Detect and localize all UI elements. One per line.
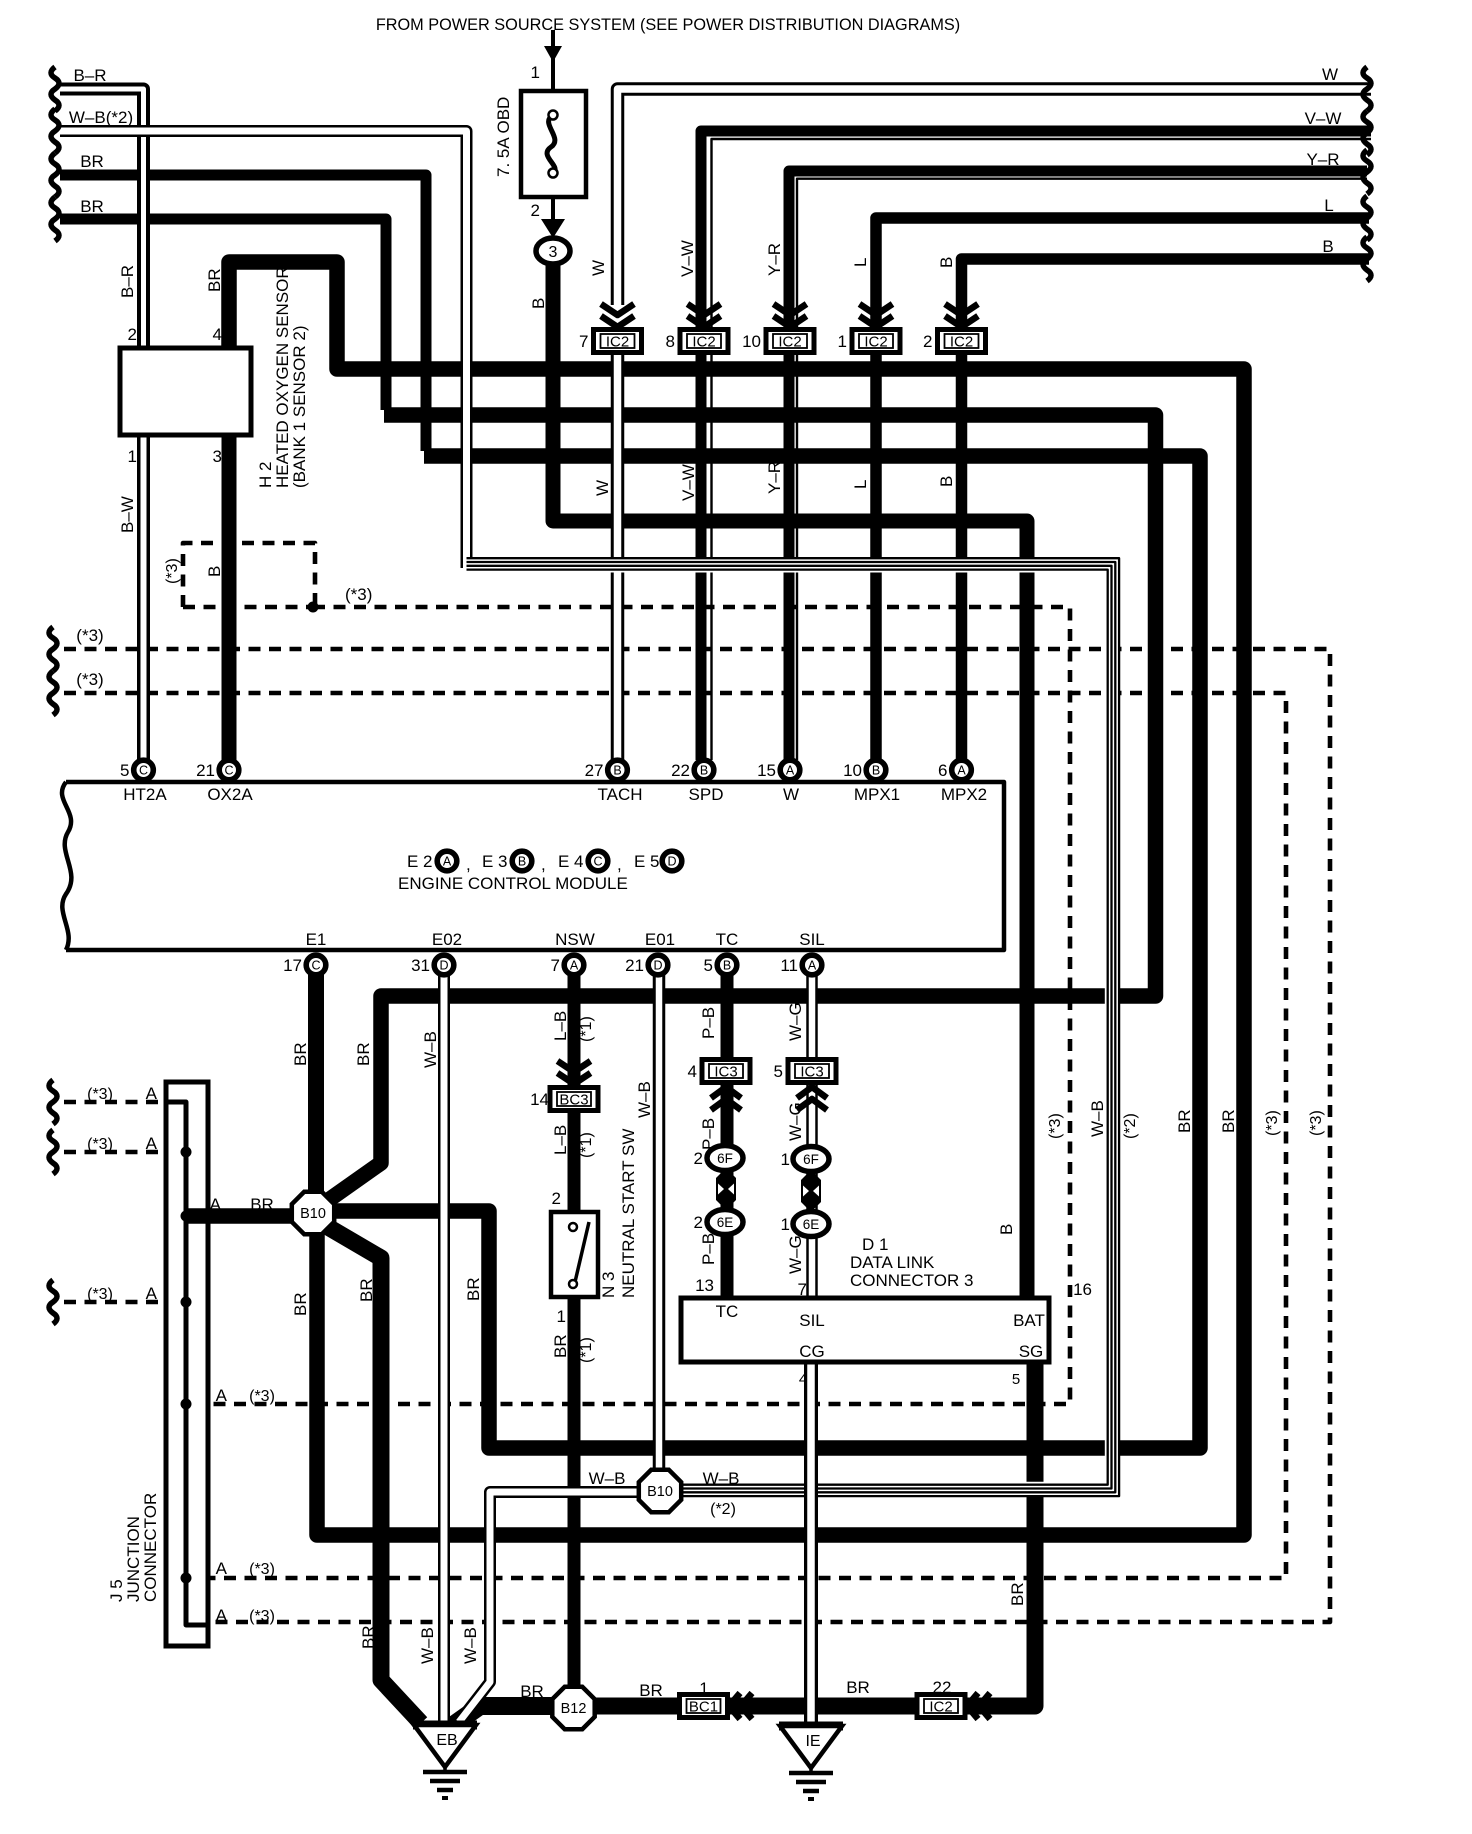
svg-text:W–B: W–B	[635, 1081, 654, 1118]
svg-text:B: B	[613, 764, 621, 778]
svg-text:4: 4	[688, 1062, 697, 1081]
svg-text:SIL: SIL	[799, 1311, 825, 1330]
svg-text:IC2: IC2	[929, 1699, 952, 1716]
svg-text:C: C	[139, 764, 148, 778]
svg-text:N 3: N 3	[599, 1272, 618, 1298]
svg-text:OX2A: OX2A	[207, 785, 253, 804]
svg-text:3: 3	[213, 447, 222, 466]
svg-text:E02: E02	[432, 930, 462, 949]
svg-text:C: C	[224, 764, 233, 778]
svg-text:W: W	[1322, 65, 1338, 84]
svg-text:A: A	[146, 1284, 158, 1303]
svg-text:A: A	[146, 1134, 158, 1153]
svg-text:W–B: W–B	[1088, 1100, 1107, 1137]
svg-text:A: A	[957, 764, 966, 778]
svg-text:W–B: W–B	[703, 1469, 740, 1488]
svg-text:17: 17	[283, 956, 302, 975]
svg-text:1: 1	[781, 1215, 790, 1234]
svg-text:14: 14	[530, 1090, 549, 1109]
svg-text:HT2A: HT2A	[123, 785, 167, 804]
svg-text:B: B	[700, 764, 708, 778]
svg-text:(*1): (*1)	[578, 1132, 595, 1158]
svg-text:B–W: B–W	[118, 496, 137, 533]
svg-text:L–B: L–B	[551, 1125, 570, 1155]
svg-text:11: 11	[780, 956, 798, 975]
svg-text:E 4: E 4	[558, 852, 584, 871]
svg-text:BR: BR	[291, 1292, 310, 1316]
svg-text:A: A	[786, 764, 795, 778]
svg-text:BR: BR	[639, 1681, 663, 1700]
svg-text:BR: BR	[846, 1678, 870, 1697]
svg-text:CONNECTOR: CONNECTOR	[141, 1493, 160, 1602]
svg-text:IC2: IC2	[606, 334, 629, 351]
svg-text:6: 6	[938, 761, 947, 780]
svg-text:1: 1	[531, 63, 540, 82]
svg-text:W: W	[783, 785, 799, 804]
svg-text:BR: BR	[291, 1042, 310, 1066]
svg-text:IE: IE	[805, 1733, 820, 1750]
svg-text:7: 7	[551, 956, 560, 975]
svg-text:W–B: W–B	[418, 1627, 437, 1664]
svg-text:CG: CG	[799, 1342, 825, 1361]
svg-text:BR: BR	[464, 1277, 483, 1301]
svg-text:ENGINE CONTROL MODULE: ENGINE CONTROL MODULE	[398, 874, 628, 893]
svg-text:16: 16	[1073, 1280, 1092, 1299]
svg-text:BR: BR	[80, 197, 104, 216]
svg-text:4: 4	[799, 1371, 807, 1388]
svg-text:2: 2	[694, 1213, 703, 1232]
svg-text:EB: EB	[436, 1732, 457, 1749]
svg-text:BR: BR	[520, 1682, 544, 1701]
svg-text:(*3): (*3)	[249, 1608, 275, 1625]
svg-text:(*3): (*3)	[1308, 1110, 1325, 1136]
svg-text:15: 15	[757, 761, 776, 780]
svg-text:22: 22	[671, 761, 690, 780]
svg-text:B: B	[529, 298, 548, 309]
svg-text:B: B	[997, 1224, 1016, 1235]
svg-text:B: B	[1322, 237, 1333, 256]
svg-text:B: B	[937, 257, 956, 268]
svg-text:Y–R: Y–R	[1306, 150, 1339, 169]
svg-text:(*3): (*3)	[87, 1286, 113, 1303]
svg-text:6F: 6F	[803, 1152, 819, 1167]
svg-text:BR: BR	[551, 1334, 570, 1358]
svg-text:27: 27	[585, 761, 604, 780]
svg-text:(*1): (*1)	[578, 1016, 595, 1042]
svg-text:A: A	[216, 1386, 228, 1405]
svg-text:(*3): (*3)	[87, 1136, 113, 1153]
svg-text:A: A	[443, 855, 452, 869]
svg-text:W: W	[589, 260, 608, 276]
svg-text:FROM POWER SOURCE SYSTEM (SEE: FROM POWER SOURCE SYSTEM (SEE POWER DIST…	[376, 16, 960, 34]
svg-text:W–B: W–B	[461, 1627, 480, 1664]
svg-text:2: 2	[128, 325, 137, 344]
svg-text:A: A	[146, 1084, 158, 1103]
svg-text:E1: E1	[306, 930, 327, 949]
svg-text:7: 7	[579, 332, 588, 351]
svg-text:1: 1	[699, 1679, 708, 1698]
svg-text:B–R: B–R	[73, 66, 106, 85]
svg-text:D: D	[667, 855, 676, 869]
svg-text:NSW: NSW	[555, 930, 595, 949]
svg-text:TC: TC	[716, 930, 739, 949]
svg-text:B10: B10	[300, 1206, 326, 1222]
svg-text:B: B	[937, 476, 956, 487]
svg-text:,: ,	[466, 855, 471, 874]
svg-text:B10: B10	[647, 1484, 673, 1500]
svg-text:(*1): (*1)	[578, 1337, 595, 1363]
svg-text:2: 2	[531, 201, 540, 220]
svg-text:(*3): (*3)	[1047, 1113, 1064, 1139]
svg-text:BR: BR	[80, 152, 104, 171]
svg-text:TACH: TACH	[597, 785, 642, 804]
svg-text:1: 1	[781, 1150, 790, 1169]
svg-text:BAT: BAT	[1013, 1311, 1045, 1330]
svg-text:W–B(*2): W–B(*2)	[69, 108, 133, 127]
svg-text:V–W: V–W	[678, 240, 697, 277]
svg-text:(*3): (*3)	[345, 585, 372, 604]
svg-text:B: B	[872, 764, 880, 778]
svg-text:SIL: SIL	[799, 930, 825, 949]
svg-text:B: B	[205, 566, 224, 577]
svg-text:C: C	[593, 855, 602, 869]
svg-text:IC3: IC3	[800, 1064, 823, 1081]
svg-text:IC3: IC3	[714, 1064, 737, 1081]
svg-text:V–W: V–W	[679, 464, 698, 501]
svg-text:MPX2: MPX2	[941, 785, 987, 804]
svg-text:4: 4	[213, 325, 222, 344]
svg-text:A: A	[210, 1195, 222, 1214]
svg-text:1: 1	[128, 447, 137, 466]
svg-text:W: W	[593, 480, 612, 496]
svg-text:Y–R: Y–R	[765, 461, 784, 494]
svg-text:L–B: L–B	[551, 1011, 570, 1041]
svg-text:(*2): (*2)	[1122, 1113, 1139, 1139]
svg-text:10: 10	[843, 761, 862, 780]
svg-text:21: 21	[625, 956, 644, 975]
svg-text:5: 5	[1012, 1371, 1020, 1388]
svg-text:BR: BR	[1219, 1109, 1238, 1133]
svg-text:IC2: IC2	[778, 334, 801, 351]
svg-text:D: D	[653, 959, 662, 973]
svg-text:22: 22	[933, 1678, 952, 1697]
svg-text:E 3: E 3	[482, 852, 508, 871]
svg-text:SG: SG	[1019, 1342, 1044, 1361]
svg-text:6F: 6F	[717, 1151, 733, 1166]
svg-text:L: L	[1324, 196, 1333, 215]
svg-text:(*3): (*3)	[249, 1561, 275, 1578]
svg-text:10: 10	[742, 332, 761, 351]
svg-text:BR: BR	[205, 268, 224, 292]
svg-text:,: ,	[617, 855, 622, 874]
svg-text:W–G: W–G	[786, 1002, 805, 1041]
svg-text:Y–R: Y–R	[765, 243, 784, 276]
svg-text:7. 5A OBD: 7. 5A OBD	[494, 97, 513, 177]
svg-text:W–B: W–B	[421, 1031, 440, 1068]
svg-text:W–B: W–B	[589, 1469, 626, 1488]
svg-text:3: 3	[549, 244, 558, 261]
svg-text:V–W: V–W	[1305, 109, 1342, 128]
svg-text:B–R: B–R	[118, 265, 137, 298]
svg-text:L: L	[851, 258, 870, 267]
svg-text:1: 1	[838, 332, 847, 351]
svg-text:(BANK 1 SENSOR 2): (BANK 1 SENSOR 2)	[290, 326, 309, 489]
svg-text:SPD: SPD	[689, 785, 724, 804]
svg-text:IC2: IC2	[950, 334, 973, 351]
svg-text:BR: BR	[357, 1278, 376, 1302]
svg-text:A: A	[216, 1606, 228, 1625]
svg-text:E 2: E 2	[407, 852, 433, 871]
svg-text:(*3): (*3)	[76, 626, 103, 645]
svg-text:BR: BR	[250, 1195, 274, 1214]
svg-text:5: 5	[774, 1062, 783, 1081]
svg-text:6E: 6E	[717, 1215, 734, 1230]
svg-text:,: ,	[541, 855, 546, 874]
svg-text:P–B: P–B	[699, 1007, 718, 1039]
svg-text:L: L	[851, 480, 870, 489]
svg-text:BR: BR	[354, 1042, 373, 1066]
svg-text:IC2: IC2	[864, 334, 887, 351]
svg-text:(*3): (*3)	[164, 558, 181, 584]
svg-text:P–B: P–B	[699, 1233, 718, 1265]
svg-text:6E: 6E	[803, 1217, 820, 1232]
svg-text:2: 2	[923, 332, 932, 351]
svg-text:IC2: IC2	[692, 334, 715, 351]
svg-text:BR: BR	[1008, 1582, 1027, 1606]
svg-text:BR: BR	[1175, 1109, 1194, 1133]
svg-text:2: 2	[552, 1189, 561, 1208]
svg-text:C: C	[311, 959, 320, 973]
svg-text:(*3): (*3)	[1264, 1110, 1281, 1136]
svg-text:B12: B12	[561, 1701, 587, 1717]
svg-text:A: A	[216, 1559, 228, 1578]
svg-text:13: 13	[695, 1276, 714, 1295]
svg-text:(*2): (*2)	[710, 1501, 736, 1518]
svg-text:BC3: BC3	[559, 1092, 588, 1109]
svg-text:E01: E01	[645, 930, 675, 949]
svg-text:(*3): (*3)	[76, 670, 103, 689]
svg-text:D 1: D 1	[862, 1235, 888, 1254]
svg-text:BC1: BC1	[689, 1699, 718, 1716]
svg-text:D: D	[439, 959, 448, 973]
svg-text:5: 5	[704, 956, 713, 975]
svg-text:DATA LINK: DATA LINK	[850, 1253, 935, 1272]
svg-text:2: 2	[694, 1149, 703, 1168]
svg-text:(*3): (*3)	[87, 1086, 113, 1103]
svg-text:BR: BR	[359, 1625, 378, 1649]
svg-text:B: B	[723, 959, 731, 973]
svg-text:NEUTRAL START SW: NEUTRAL START SW	[619, 1129, 638, 1298]
svg-text:W–G: W–G	[786, 1235, 805, 1274]
svg-text:B: B	[518, 855, 526, 869]
svg-text:(*3): (*3)	[249, 1388, 275, 1405]
svg-text:P–B: P–B	[699, 1118, 718, 1150]
svg-text:5: 5	[120, 761, 129, 780]
svg-text:W–G: W–G	[786, 1102, 805, 1141]
svg-text:A: A	[570, 959, 579, 973]
svg-text:CONNECTOR 3: CONNECTOR 3	[850, 1271, 973, 1290]
svg-text:MPX1: MPX1	[854, 785, 900, 804]
svg-text:1: 1	[557, 1307, 566, 1326]
svg-text:31: 31	[411, 956, 430, 975]
svg-text:A: A	[808, 959, 817, 973]
svg-text:TC: TC	[716, 1302, 739, 1321]
svg-text:E 5: E 5	[634, 852, 660, 871]
svg-text:7: 7	[798, 1280, 807, 1299]
svg-text:8: 8	[666, 332, 675, 351]
svg-text:21: 21	[196, 761, 215, 780]
